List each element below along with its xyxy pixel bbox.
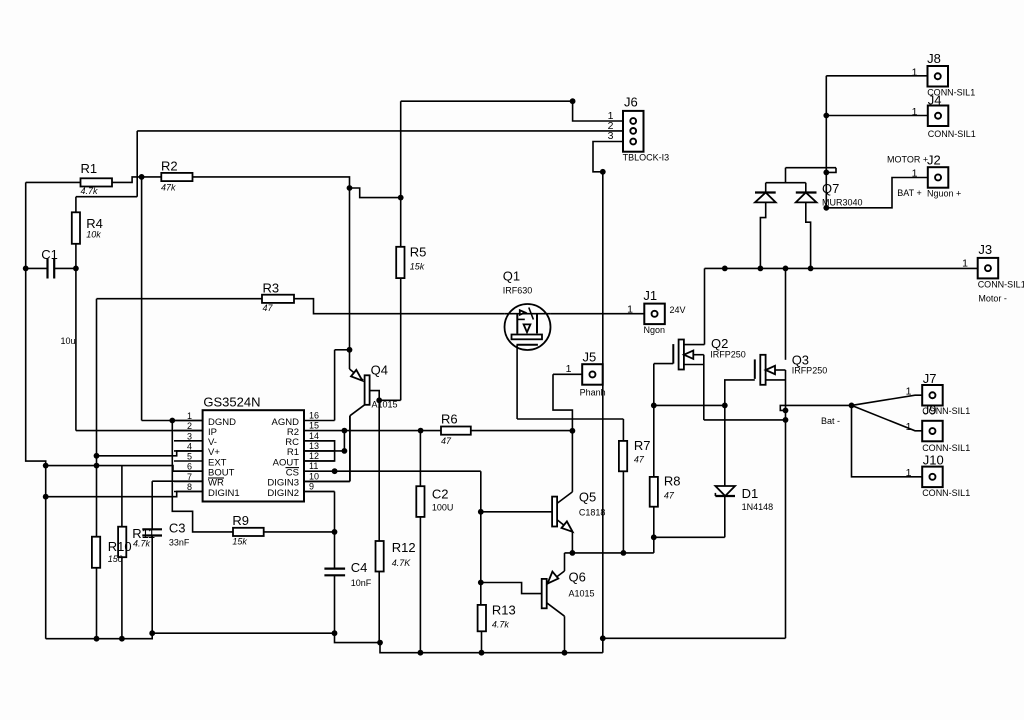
svg-text:1: 1	[906, 421, 912, 433]
svg-text:DIGIN1: DIGIN1	[208, 488, 240, 499]
svg-text:12: 12	[309, 451, 319, 461]
svg-text:15: 15	[309, 421, 319, 431]
svg-text:Q6: Q6	[569, 570, 586, 585]
svg-text:Motor -: Motor -	[978, 294, 1007, 304]
svg-text:1: 1	[187, 411, 192, 421]
svg-text:Q7: Q7	[822, 181, 839, 196]
svg-text:11: 11	[309, 461, 318, 471]
svg-text:4.7k: 4.7k	[133, 539, 151, 549]
svg-text:Phanh: Phanh	[580, 388, 606, 398]
svg-text:C4: C4	[351, 560, 368, 575]
svg-text:100U: 100U	[432, 503, 454, 513]
svg-text:Nguon +: Nguon +	[927, 189, 961, 199]
svg-text:4: 4	[187, 441, 192, 451]
svg-text:CONN-SIL1: CONN-SIL1	[922, 488, 970, 498]
svg-text:5: 5	[187, 452, 192, 462]
svg-text:10u: 10u	[61, 336, 76, 346]
svg-text:14: 14	[309, 431, 319, 441]
svg-text:R5: R5	[410, 245, 427, 260]
svg-text:R10: R10	[108, 539, 132, 554]
svg-text:13: 13	[309, 441, 319, 451]
svg-text:TBLOCK-I3: TBLOCK-I3	[623, 153, 670, 163]
svg-text:10: 10	[309, 471, 319, 481]
svg-text:16: 16	[309, 411, 319, 421]
svg-text:7: 7	[187, 472, 192, 482]
svg-text:47: 47	[634, 455, 645, 465]
svg-text:J6: J6	[624, 95, 638, 110]
svg-text:J8: J8	[927, 51, 941, 66]
svg-text:47: 47	[441, 436, 452, 446]
svg-text:R7: R7	[634, 438, 651, 453]
svg-text:3: 3	[608, 130, 614, 142]
svg-text:10k: 10k	[86, 230, 101, 240]
svg-text:R8: R8	[664, 474, 681, 489]
svg-text:J1: J1	[643, 288, 657, 303]
svg-text:1: 1	[906, 386, 912, 398]
svg-text:IRF630: IRF630	[503, 286, 533, 296]
svg-text:IRFP250: IRFP250	[792, 366, 828, 376]
svg-text:CONN-SIL1: CONN-SIL1	[978, 280, 1024, 290]
svg-text:Q1: Q1	[503, 269, 520, 284]
svg-text:CONN-SIL1: CONN-SIL1	[928, 129, 976, 139]
svg-text:MUR3040: MUR3040	[822, 198, 863, 208]
svg-text:J2: J2	[927, 153, 941, 168]
svg-text:1: 1	[912, 106, 918, 118]
svg-text:2: 2	[187, 421, 192, 431]
svg-text:1: 1	[627, 304, 633, 316]
svg-text:1: 1	[912, 168, 918, 180]
svg-text:15k: 15k	[410, 262, 425, 272]
svg-text:R9: R9	[232, 513, 249, 528]
svg-text:R3: R3	[263, 281, 280, 296]
svg-text:BAT +: BAT +	[897, 188, 921, 198]
svg-text:4.7k: 4.7k	[81, 186, 99, 196]
svg-text:D1: D1	[742, 486, 759, 501]
svg-text:Q4: Q4	[371, 362, 388, 377]
svg-text:Ngon: Ngon	[644, 325, 666, 335]
svg-text:3: 3	[187, 431, 192, 441]
svg-text:IRFP250: IRFP250	[710, 350, 746, 360]
svg-text:47k: 47k	[161, 183, 176, 193]
svg-text:1: 1	[912, 66, 918, 78]
svg-text:8: 8	[187, 482, 192, 492]
svg-text:J5: J5	[583, 350, 597, 365]
svg-text:J10: J10	[923, 452, 944, 467]
svg-text:J4: J4	[928, 93, 942, 108]
svg-text:CONN-SIL1: CONN-SIL1	[922, 443, 970, 453]
svg-text:DIGIN2: DIGIN2	[267, 488, 299, 499]
svg-text:GS3524N: GS3524N	[203, 395, 260, 410]
svg-text:47: 47	[664, 491, 675, 501]
svg-text:R1: R1	[81, 161, 98, 176]
svg-text:4.7k: 4.7k	[492, 619, 510, 629]
svg-text:47: 47	[263, 303, 274, 313]
svg-text:R13: R13	[492, 603, 516, 618]
svg-text:A1015: A1015	[569, 589, 595, 599]
svg-text:J3: J3	[978, 242, 992, 257]
svg-text:C3: C3	[169, 521, 186, 536]
svg-text:C2: C2	[432, 487, 449, 502]
svg-text:A1015: A1015	[372, 400, 398, 410]
svg-text:J9: J9	[923, 403, 937, 418]
svg-text:Q5: Q5	[579, 489, 596, 504]
svg-text:10nF: 10nF	[351, 578, 372, 588]
svg-text:C1818: C1818	[579, 508, 606, 518]
svg-text:1: 1	[906, 467, 912, 479]
svg-text:1N4148: 1N4148	[742, 502, 774, 512]
svg-text:R6: R6	[441, 412, 458, 427]
svg-text:1: 1	[962, 258, 968, 270]
svg-text:J7: J7	[923, 371, 937, 386]
svg-text:9: 9	[309, 482, 314, 492]
svg-text:Bat -: Bat -	[821, 416, 840, 426]
svg-text:C1: C1	[41, 247, 58, 262]
svg-text:24V: 24V	[670, 305, 686, 315]
svg-text:4.7K: 4.7K	[392, 558, 412, 568]
svg-text:150: 150	[108, 554, 123, 564]
svg-text:6: 6	[187, 462, 192, 472]
svg-text:1: 1	[566, 363, 572, 375]
svg-text:MOTOR +: MOTOR +	[887, 155, 928, 165]
svg-text:33nF: 33nF	[169, 538, 190, 548]
svg-text:15k: 15k	[232, 536, 247, 546]
svg-text:R12: R12	[392, 540, 416, 555]
svg-text:R2: R2	[161, 159, 178, 174]
